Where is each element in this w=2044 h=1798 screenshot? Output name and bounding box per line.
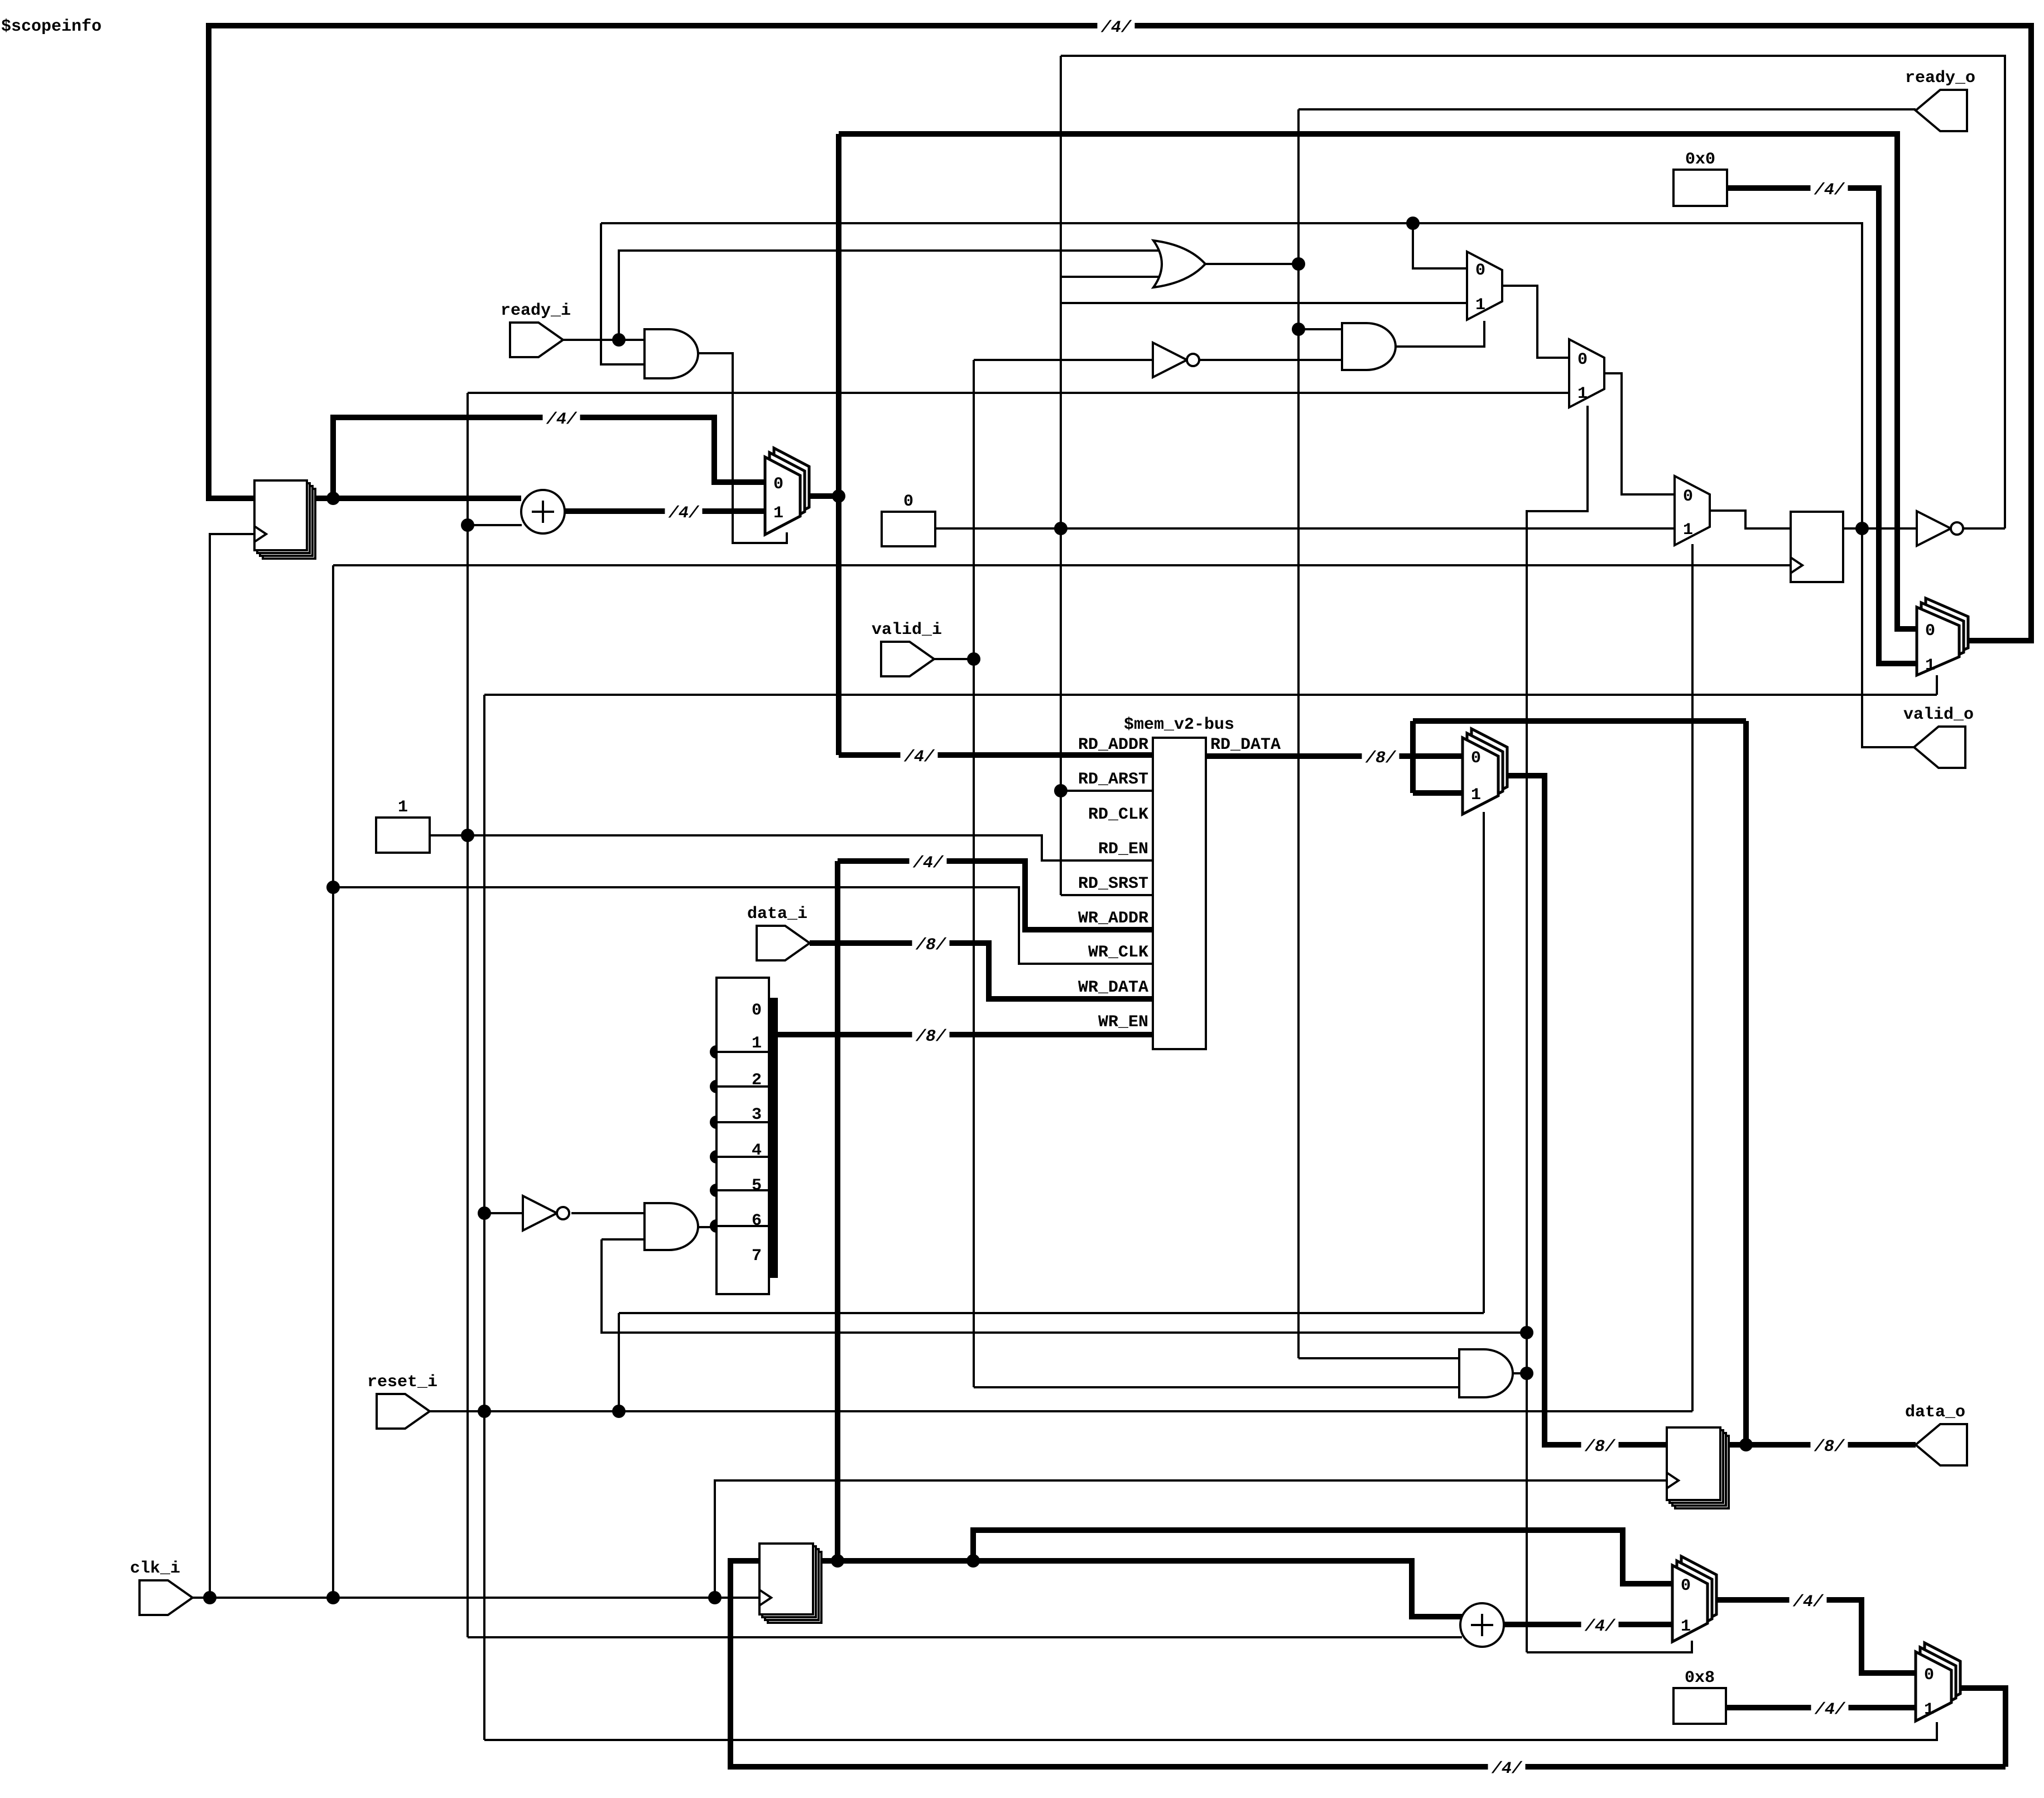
svg-text:RD_ARST: RD_ARST [1078, 770, 1148, 789]
svg-text:WR_EN: WR_EN [1098, 1013, 1148, 1032]
svg-text:ready_o: ready_o [1905, 69, 1975, 88]
wire const1 to muxB in1 [468, 392, 1569, 394]
svg-text:/8/: /8/ [1584, 1438, 1616, 1456]
output port valid_o [1914, 727, 1965, 768]
wire to mem RD_ADDR [839, 752, 1153, 758]
wire to mem RD_ARST [1061, 790, 1153, 792]
wire mux5 out to mux6 in0 [1708, 1600, 1916, 1673]
wire muxB select from AND4 net [1526, 406, 1588, 511]
wire valid_i to AND4 in2 [974, 1386, 1460, 1388]
bus width label /4/ [543, 406, 580, 429]
bus width label /4/ [901, 744, 938, 767]
svg-text:0: 0 [1681, 1576, 1691, 1595]
flip-flop wr_ptr register (DFF3) [759, 1544, 821, 1623]
junction wr_en bit [710, 1150, 723, 1164]
svg-text:/4/: /4/ [1491, 1759, 1523, 1778]
bus width label /4/ [1098, 15, 1135, 37]
wire AND4 net vertical [1526, 511, 1528, 1652]
wire NOT3 out to AND3 [571, 1212, 645, 1214]
output port ready_o [1916, 90, 1967, 131]
and gate AND4 (wr enable) [1459, 1349, 1513, 1397]
junction wr_ptr WR_ADDR [831, 1554, 844, 1568]
svg-text:0: 0 [1475, 261, 1485, 280]
svg-text:/4/: /4/ [903, 748, 935, 767]
wire adder1 out to mux1 in1 [565, 508, 765, 514]
wire valid_i vertical [973, 360, 975, 1387]
wire data_o loop top [1413, 718, 1746, 724]
not gate NOT3 (inverter) [523, 1196, 569, 1230]
wire const 0x8 to mux6 in1 [1726, 1705, 1916, 1710]
wire to AND2 in1 [1298, 328, 1342, 330]
svg-text:1: 1 [1681, 1617, 1691, 1636]
wire reset branch vertical [618, 1313, 620, 1411]
svg-text:RD_ADDR: RD_ADDR [1078, 735, 1148, 754]
wire mux1 out [808, 493, 839, 499]
constant 0x0 [1673, 170, 1727, 206]
junction clk DFF4 [708, 1591, 722, 1604]
wire const1 vertical [466, 393, 469, 1637]
svg-text:WR_CLK: WR_CLK [1088, 943, 1148, 962]
and gate AND2 [1342, 323, 1396, 370]
wire const1 to adder2 B [468, 1636, 1462, 1638]
wire RD_DATA to muxD in0 [1206, 753, 1463, 759]
wire NOT2 out loop [1061, 56, 2005, 528]
mux muxB [1569, 339, 1604, 407]
svg-text:valid_o: valid_o [1903, 705, 1974, 724]
input port valid_i [881, 642, 934, 676]
wire mux3 out to DFF2 D [1710, 511, 1791, 528]
svg-text:1: 1 [1683, 521, 1693, 540]
flip-flop rd_ptr register (DFF1) [254, 480, 315, 559]
svg-text:0: 0 [1925, 622, 1935, 641]
junction reset NOT3 [478, 1405, 491, 1418]
wire ready_i to OR in1 [619, 251, 1169, 340]
svg-text:0: 0 [903, 492, 913, 511]
svg-text:1: 1 [1578, 384, 1588, 403]
bus width label /4/ [665, 500, 703, 523]
wire rd_ptr_next to mux4 in0 [839, 134, 1917, 629]
svg-text:0: 0 [1578, 350, 1588, 369]
bus width label /4/ [1488, 1756, 1526, 1778]
wire to NOT3 in [484, 1212, 523, 1214]
bus width label /4/ [1581, 1613, 1619, 1636]
svg-text:1: 1 [1925, 656, 1935, 675]
svg-text:7: 7 [752, 1247, 762, 1266]
bus width label /8/ [912, 1023, 950, 1046]
wire valid_i [934, 658, 974, 660]
wire NOT2 out [1964, 527, 2005, 530]
mux rd_ptr next (mux1) [765, 448, 809, 535]
flip-flop data_o register (DFF4) [1667, 1427, 1729, 1508]
wire clk to DFF1 clk [210, 534, 254, 1598]
junction valid_i [967, 652, 980, 666]
wire to ready_o [1298, 108, 1916, 110]
wire rd_ptr_next vertical [836, 134, 841, 755]
wire mux3 select riser [1691, 544, 1694, 1411]
junction data_o loop [1739, 1438, 1753, 1451]
wire AND3 in2 [602, 1238, 645, 1241]
svg-text:0: 0 [1924, 1666, 1934, 1685]
wire DFF4.Q to data_o [1720, 1442, 1916, 1448]
svg-text:/4/: /4/ [546, 410, 578, 429]
svg-text:clk_i: clk_i [130, 1559, 180, 1578]
svg-text:WR_ADDR: WR_ADDR [1078, 909, 1148, 928]
svg-text:/4/: /4/ [912, 854, 944, 873]
svg-text:1: 1 [1471, 786, 1481, 805]
svg-text:$mem_v2-bus: $mem_v2-bus [1124, 715, 1234, 734]
wire data_o loop vertical right [1743, 721, 1749, 1445]
wire ready_i to AND1 in1 [563, 339, 645, 341]
junction DFF1.Q [326, 492, 340, 505]
wire to mux5 select [1527, 1641, 1692, 1652]
svg-text:RD_EN: RD_EN [1098, 840, 1148, 859]
memory $mem_v2-bus [1153, 738, 1206, 1049]
wire const1 to mem RD_EN [430, 835, 1153, 860]
wire DFF3.Q to adder2 A [813, 1561, 1462, 1617]
svg-text:$scopeinfo: $scopeinfo [1, 17, 102, 36]
junction clk riser [326, 1591, 340, 1604]
svg-text:3: 3 [752, 1105, 762, 1124]
bus ripper WR_EN bits [716, 978, 773, 1294]
bus width label /8/ [1581, 1434, 1619, 1456]
wire AND4 out [1513, 1372, 1527, 1374]
junction wr_en bit [710, 1080, 723, 1093]
junction clk WR_CLK [326, 881, 340, 894]
svg-text:1: 1 [752, 1034, 762, 1053]
wire clk to DFF2 clk [333, 564, 1791, 566]
bus width label /4/ [1811, 177, 1848, 200]
junction const0 [1054, 522, 1067, 535]
svg-text:1: 1 [1924, 1700, 1934, 1719]
wire to OR in2 [1061, 276, 1169, 278]
wire data_i to WR_DATA [810, 943, 1153, 999]
bus width label /4/ [910, 850, 947, 873]
svg-text:WR_DATA: WR_DATA [1078, 978, 1148, 997]
svg-text:valid_i: valid_i [872, 621, 942, 640]
flip-flop valid register (DFF2) [1791, 512, 1843, 582]
wire DFF1.Q to adder A [307, 496, 521, 501]
svg-text:0: 0 [1471, 749, 1481, 768]
junction wr_en bit [710, 1184, 723, 1197]
junction reset riser [612, 1405, 626, 1418]
wire clk vertical [332, 565, 334, 1598]
junction RD_ARST [1054, 784, 1067, 797]
wire data_o loop vertical left [1410, 721, 1416, 793]
svg-text:/4/: /4/ [1584, 1617, 1616, 1636]
svg-text:0: 0 [752, 1001, 762, 1020]
junction ready_i [612, 333, 626, 347]
wire reset branch y2353 [619, 1312, 1484, 1314]
wire to muxA in1 [1061, 302, 1467, 304]
input port data_i [757, 926, 810, 960]
wire const 0x0 to mux4 in1 [1727, 188, 1917, 664]
svg-text:/8/: /8/ [1365, 749, 1397, 768]
wire reset_i [430, 1410, 1692, 1412]
wire wr_ptr to WR_ADDR [838, 861, 1153, 930]
junction AND2 in1 [1292, 323, 1305, 336]
constant 0 [882, 512, 935, 546]
junction DFF2.Q [1855, 522, 1869, 535]
svg-text:/8/: /8/ [915, 1027, 947, 1046]
svg-text:/8/: /8/ [1814, 1438, 1845, 1456]
wire mux6 out to bottom bus [1951, 1688, 2005, 1767]
junction wr_en bit [710, 1116, 723, 1129]
svg-text:0: 0 [1683, 487, 1693, 506]
wire adder2 out to mux5 in1 [1504, 1622, 1672, 1627]
svg-text:/8/: /8/ [915, 936, 947, 955]
mux rd_ptr reset (mux4) [1917, 598, 1968, 675]
wire AND2 out to muxA select [1396, 321, 1484, 347]
wire const0 to mux3 in1 [935, 527, 1675, 530]
wire muxA out to muxB in0 [1502, 286, 1569, 358]
wire valid_i to NOT1b [974, 359, 1153, 361]
svg-text:/4/: /4/ [1100, 18, 1132, 37]
wire mux4 select [1936, 675, 1938, 695]
svg-text:1: 1 [1475, 296, 1485, 315]
svg-text:2: 2 [752, 1071, 762, 1090]
mux mux3 [1675, 476, 1710, 545]
wire AND3 out to wr_en bits [698, 1226, 716, 1228]
wire DFF1.Q branch to mux1 in0 [333, 417, 765, 498]
mux muxA [1467, 252, 1502, 320]
and gate AND3 (wr_en bits) [645, 1203, 698, 1250]
or gate OR1 [1153, 241, 1205, 287]
wire wr_ptr to mux5 in0 [973, 1530, 1672, 1584]
junction DFF2.Q muxA [1406, 217, 1420, 230]
mux wr_ptr next (mux5) [1672, 1556, 1716, 1642]
wire wr_ptr vertical [835, 861, 840, 1561]
bus width label /4/ [1790, 1589, 1827, 1612]
junction AND4 out [1520, 1367, 1533, 1380]
input port ready_i [510, 323, 563, 357]
wire DFF2.Q to muxA in0 [1413, 223, 1467, 268]
svg-text:/4/: /4/ [1814, 1700, 1846, 1719]
wire clk to mem WR_CLK [333, 887, 1153, 964]
wire OR out [1205, 263, 1298, 265]
junction NOT3 in [478, 1206, 491, 1220]
wire clk to DFF4 clk [715, 1480, 1667, 1598]
svg-text:6: 6 [752, 1212, 762, 1230]
not gate NOT1 (inverter) [1153, 343, 1199, 377]
mux data_o source (muxD) [1463, 729, 1507, 814]
wire OR out vertical [1297, 109, 1300, 1358]
svg-text:1: 1 [773, 504, 783, 523]
bus width label /4/ [1811, 1696, 1849, 1719]
svg-text:/4/: /4/ [1792, 1593, 1824, 1612]
svg-text:/4/: /4/ [1814, 181, 1845, 200]
svg-text:/4/: /4/ [668, 504, 700, 523]
output port data_o [1916, 1424, 1967, 1465]
wire muxB out to mux3 in0 [1604, 373, 1675, 494]
wire to AND4 in1 [1298, 1357, 1460, 1359]
junction AND4 net [1520, 1326, 1533, 1339]
svg-text:data_i: data_i [747, 905, 807, 924]
wire WR_EN bus [776, 1032, 1153, 1037]
svg-text:0x0: 0x0 [1685, 150, 1715, 169]
wire muxD select [1483, 812, 1485, 1313]
constant 1 [376, 818, 430, 853]
junction wr_en bit [710, 1045, 723, 1059]
junction wr_ptr mux5 [966, 1554, 980, 1568]
constant 0x8 [1673, 1688, 1726, 1724]
svg-text:1: 1 [398, 798, 408, 817]
junction mux1 out [832, 489, 845, 503]
wire rd_ptr_next bus top loop [209, 26, 2031, 641]
wire reset vertical [483, 695, 485, 1740]
wire DFF2.Q to AND1 in2 [601, 223, 645, 364]
wire data_o loop to muxD in1 [1413, 790, 1463, 796]
adder rd_ptr +1 [521, 490, 565, 533]
wire AND4 net to AND3 [602, 1239, 1527, 1333]
wire to mem RD_SRST [1061, 894, 1153, 896]
svg-text:RD_DATA: RD_DATA [1210, 735, 1281, 754]
input port clk_i [140, 1580, 193, 1615]
svg-text:0x8: 0x8 [1685, 1669, 1715, 1688]
wire DFF2.Q to valid_o [1862, 528, 1914, 747]
wire DFF2.Q to NOT2 [1843, 527, 1918, 530]
bus width label /8/ [912, 932, 950, 955]
svg-text:RD_SRST: RD_SRST [1078, 874, 1148, 893]
svg-text:5: 5 [752, 1176, 762, 1195]
junction const1 [461, 829, 474, 842]
wire muxD out to DFF4 D [1498, 776, 1667, 1445]
wire mux4 select line [484, 694, 1937, 696]
wire const0 vertical [1060, 56, 1062, 895]
svg-text:data_o: data_o [1905, 1403, 1965, 1422]
wire NOT1b out to AND2 in2 [1193, 359, 1342, 361]
svg-text:0: 0 [773, 475, 783, 494]
and gate AND1 (ready_i & valid) [645, 329, 698, 378]
wire const1 to adder1 B [468, 524, 522, 526]
svg-text:reset_i: reset_i [367, 1373, 437, 1392]
wire reset to mux6 select [484, 1722, 1937, 1740]
svg-text:ready_i: ready_i [501, 301, 571, 320]
adder wr_ptr +1 [1460, 1603, 1504, 1647]
not gate NOT2 (inverter) [1917, 511, 1963, 546]
junction wr_en bit [710, 1219, 723, 1233]
junction OR out [1292, 257, 1305, 271]
wire bottom bus to DFF3 D [730, 1561, 2005, 1767]
junction const1 adder1 [461, 518, 474, 532]
input port reset_i [377, 1394, 430, 1429]
wire AND1 out to mux1 select [698, 353, 787, 543]
wire DFF2.Q long to left [601, 223, 1862, 528]
bus width label /8/ [1362, 745, 1399, 768]
svg-text:4: 4 [752, 1141, 762, 1160]
mux wr_ptr reset (mux6) [1916, 1643, 1960, 1721]
svg-text:RD_CLK: RD_CLK [1088, 805, 1148, 824]
junction clk DFF1 [203, 1591, 217, 1604]
wire clk_i [193, 1597, 760, 1599]
bus width label /8/ [1811, 1434, 1848, 1456]
